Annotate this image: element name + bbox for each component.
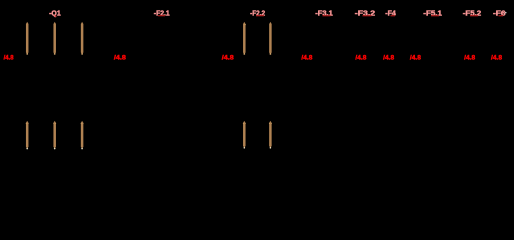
svg-text:/4.8: /4.8	[491, 56, 503, 62]
svg-text:/4.8: /4.8	[410, 56, 422, 62]
wire L1 top segment	[26, 22, 29, 55]
svg-text:/4.8: /4.8	[355, 56, 367, 62]
device tag -F3.1	[315, 10, 333, 17]
wire L3 top segment	[81, 22, 84, 55]
device tag -F5.2	[463, 10, 482, 17]
device tag -Q1	[49, 10, 61, 17]
wire L5 top segment	[269, 22, 272, 55]
svg-text:/4.8: /4.8	[301, 56, 313, 62]
wire L3 bottom segment	[81, 121, 84, 150]
wire L2 top segment	[53, 22, 56, 55]
svg-text:/4.8: /4.8	[114, 55, 127, 61]
wire L4 bottom segment	[243, 121, 246, 149]
svg-text:/4.8: /4.8	[4, 55, 15, 61]
device tag -F5.1	[423, 10, 442, 17]
device tag -F6	[493, 10, 506, 17]
svg-text:/4.8: /4.8	[383, 56, 395, 62]
wire L5 bottom segment	[269, 121, 272, 149]
device tag -F4	[385, 10, 396, 17]
device tag -F3.2	[355, 10, 375, 17]
wire L1 bottom segment	[26, 121, 29, 150]
device tag -F2.2	[250, 10, 265, 17]
svg-text:/4.8: /4.8	[222, 55, 235, 61]
wire L4 top segment	[243, 22, 246, 55]
wire L2 bottom segment	[53, 121, 56, 150]
device tag -F2.1	[154, 10, 170, 17]
svg-text:/4.8: /4.8	[464, 56, 476, 62]
